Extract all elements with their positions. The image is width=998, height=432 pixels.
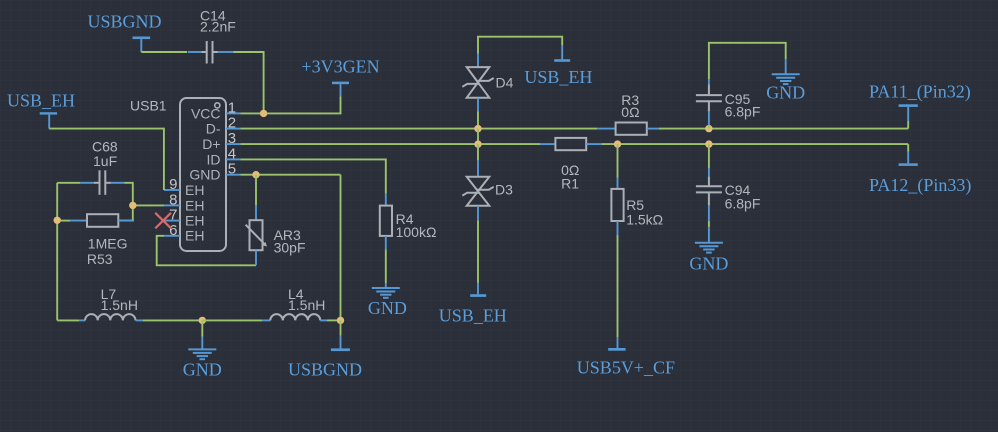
C94 value labels: [725, 182, 761, 212]
svg-text:R1: R1: [561, 176, 579, 192]
wire pin1 to +3V3GEN riser: [241, 96, 341, 113]
TVS diode D3: [462, 144, 493, 220]
wire left rail corner to L7: [57, 319, 79, 321]
svg-text:ID: ID: [207, 151, 221, 167]
node junction L4/riser/USBGND: [337, 317, 344, 324]
ground GND (under R4): [368, 283, 407, 318]
svg-text:1MEG: 1MEG: [88, 235, 128, 251]
pin 9 EH: [164, 176, 204, 198]
svg-text:R53: R53: [87, 251, 113, 267]
wire USBGND to C14 left: [141, 51, 187, 53]
capacitor C95: [696, 79, 722, 129]
svg-text:6.8pF: 6.8pF: [725, 104, 761, 120]
L7 value labels: [101, 286, 138, 313]
resistor R53: [57, 214, 133, 227]
wire USB_EH to pin 9: [49, 129, 164, 190]
L4 value labels: [288, 286, 325, 313]
wire D4 top / USB_EH top: [478, 37, 562, 54]
capacitor C14: [188, 41, 234, 64]
svg-text:D3: D3: [495, 181, 513, 197]
power port USB_EH (bottom): [439, 283, 507, 325]
node junction bus2/D3: [474, 140, 481, 147]
wire pin8 tap: [133, 204, 164, 206]
svg-text:1.5nH: 1.5nH: [288, 297, 325, 313]
pin 3 D+: [202, 130, 240, 152]
net label PA11_(Pin32): [869, 82, 971, 129]
wire center junction to L4: [202, 319, 262, 321]
node junction bus1/C95: [705, 125, 712, 132]
IC U1 body USB1: [180, 98, 226, 251]
node junction L7/L4/GND: [199, 317, 206, 324]
wire L4 to right junction: [327, 319, 341, 321]
svg-text:0Ω: 0Ω: [621, 104, 639, 120]
wire pin4 to R4: [241, 159, 386, 193]
wire pin5 riser down to L4 junction: [340, 175, 342, 321]
wire C68 left to left rail: [57, 182, 80, 184]
svg-text:GND: GND: [766, 83, 805, 103]
svg-text:D4: D4: [496, 75, 514, 91]
pin 8 EH: [164, 191, 204, 213]
resistor R4: [380, 194, 392, 250]
power port USBGND (top): [87, 12, 161, 53]
capacitor C68: [80, 170, 125, 195]
C68 value labels: [92, 139, 118, 169]
power port USBGND (bottom): [288, 320, 362, 379]
svg-text:30pF: 30pF: [274, 240, 306, 256]
AR3 value labels: [274, 227, 306, 256]
wire D4-D3 link: [477, 129, 479, 145]
svg-text:USB_EH: USB_EH: [524, 67, 592, 87]
C95 value labels: [725, 91, 761, 120]
wire C14 right down to pin1 node: [234, 52, 264, 113]
trimmer capacitor AR3: [246, 205, 267, 265]
R5 value labels: [626, 197, 663, 228]
power port USB_EH (left): [7, 90, 75, 128]
svg-text:6: 6: [169, 222, 177, 239]
ground GND (under C94): [689, 227, 728, 273]
no-connect X on pin 7: [155, 213, 171, 229]
inductor L7: [79, 314, 143, 320]
svg-text:GND: GND: [368, 298, 407, 318]
pin 5 GND: [189, 161, 240, 183]
wire bus2 D+: [241, 143, 541, 145]
svg-text:EH: EH: [185, 228, 204, 244]
inductor L4: [262, 314, 327, 320]
svg-text:USB5V+_CF: USB5V+_CF: [577, 357, 675, 377]
svg-text:100kΩ: 100kΩ: [396, 224, 437, 240]
wire R4 to GND: [385, 249, 387, 283]
resistor R5: [611, 178, 623, 235]
ground GND (center bottom): [183, 320, 222, 379]
wire R1 to PA12: [602, 143, 909, 145]
wire R3 to PA11: [659, 128, 909, 130]
svg-text:GND: GND: [689, 253, 728, 273]
svg-text:1.5nH: 1.5nH: [101, 297, 138, 313]
net label USB5V+_CF: [577, 337, 675, 377]
node junction C68/R53 right: [129, 202, 136, 209]
resistor R3: [597, 123, 659, 135]
svg-text:EH: EH: [185, 197, 204, 213]
node junction pin5/AR3: [252, 171, 259, 178]
wire pin 6 loop to AR3 bottom: [157, 236, 256, 265]
svg-text:PA12_(Pin33): PA12_(Pin33): [869, 175, 971, 196]
svg-text:USBGND: USBGND: [87, 12, 161, 32]
pin 2 D-: [206, 115, 241, 137]
power port USB_EH (top middle): [524, 45, 592, 87]
wire AR3 top: [255, 175, 257, 205]
wire C95 to GND: [709, 43, 786, 79]
svg-text:+3V3GEN: +3V3GEN: [301, 56, 379, 76]
node junction bus2/R5: [614, 140, 621, 147]
svg-text:D-: D-: [206, 121, 221, 137]
svg-text:USBGND: USBGND: [288, 359, 362, 379]
svg-text:USB_EH: USB_EH: [439, 305, 507, 325]
svg-text:USB1: USB1: [130, 98, 167, 114]
svg-text:EH: EH: [185, 213, 204, 229]
svg-text:D+: D+: [202, 136, 220, 152]
svg-text:1uF: 1uF: [93, 153, 117, 169]
svg-text:5: 5: [228, 161, 236, 178]
R53 value labels: [87, 235, 128, 266]
power port +3V3GEN: [301, 56, 379, 96]
svg-text:PA11_(Pin32): PA11_(Pin32): [869, 82, 971, 103]
svg-text:1.5kΩ: 1.5kΩ: [626, 211, 663, 227]
wire R5 top: [617, 144, 619, 178]
svg-text:GND: GND: [189, 167, 220, 183]
svg-text:EH: EH: [185, 182, 204, 198]
wire pin 5 to AR3 column: [241, 174, 341, 176]
node junction left rail/R53: [54, 217, 61, 224]
wire C94 to GND: [708, 221, 710, 227]
node junction bus2/C94: [705, 140, 712, 147]
wire C68 right rail down: [118, 183, 133, 221]
wire D4 to bus1: [477, 111, 479, 128]
R4 value labels: [396, 211, 437, 240]
wire left rail down: [56, 183, 58, 321]
svg-text:2: 2: [228, 115, 236, 132]
svg-text:USB_EH: USB_EH: [7, 90, 75, 110]
svg-text:6.8pF: 6.8pF: [725, 195, 761, 211]
svg-text:VCC: VCC: [191, 105, 221, 121]
resistor R1: [540, 138, 602, 150]
net label PA12_(Pin33): [869, 144, 971, 196]
capacitor C94: [696, 144, 722, 221]
svg-text:2.2nF: 2.2nF: [200, 19, 236, 35]
R1 value labels: [561, 162, 579, 192]
wire R5 to USB5V+_CF: [617, 235, 619, 337]
wire bus1 D-: [241, 128, 598, 130]
pin 1 VCC: [191, 99, 241, 121]
TVS diode D4: [462, 54, 493, 112]
wire D3 to USB_EH port: [477, 220, 479, 283]
pin 7 EH: [164, 207, 204, 229]
C14 value labels: [200, 8, 236, 35]
wire L7 to center junction: [143, 319, 203, 321]
pin 4 ID: [207, 145, 241, 167]
node junction bus1/D4: [474, 125, 481, 132]
R3 value labels: [621, 92, 639, 120]
node junction pin1/C14/+3V3GEN: [260, 110, 267, 117]
pin 6 EH: [164, 222, 204, 244]
ground GND (top right): [766, 59, 805, 102]
svg-text:GND: GND: [183, 359, 222, 379]
